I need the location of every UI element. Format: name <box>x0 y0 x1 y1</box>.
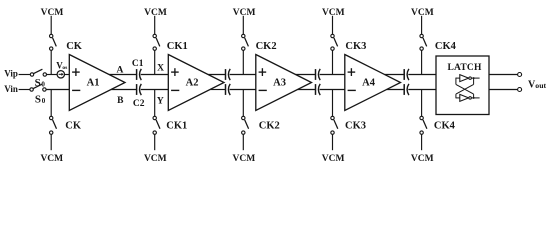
svg-text:VCM: VCM <box>40 154 63 164</box>
svg-text:A3: A3 <box>273 78 286 89</box>
value label Vos <box>56 60 67 71</box>
svg-text:CK1: CK1 <box>166 120 187 131</box>
junction dot latch top <box>473 77 475 79</box>
wire signal to switch bottom col5 <box>421 90 423 117</box>
latch box U1 <box>436 56 489 115</box>
svg-text:CK4: CK4 <box>435 41 457 52</box>
switch S0 (bottom input) <box>30 84 46 91</box>
wire switch S0 top to Vos <box>47 74 58 76</box>
wire switch S0 bottom to A1 inverting input <box>46 89 69 91</box>
op-amp A3 <box>256 55 312 111</box>
wire A3 top output to cap <box>296 74 316 76</box>
output label Vout <box>528 80 547 91</box>
switch CK bottom col1 <box>50 116 57 134</box>
svg-text:VCM: VCM <box>233 8 256 18</box>
inverter top (latch) <box>460 75 472 82</box>
wire VCM top col4 <box>332 16 334 35</box>
svg-text:CK3: CK3 <box>345 41 366 52</box>
svg-text:Vin: Vin <box>4 84 18 94</box>
pin label + (A3 non-inverting) <box>259 68 267 76</box>
wire cap to next stage top (stage 4) <box>408 74 436 76</box>
svg-text:LATCH: LATCH <box>447 63 481 73</box>
wire Vip to switch S0 top <box>19 74 31 76</box>
svg-text:CK1: CK1 <box>167 41 188 52</box>
wire latch cross feedback 2 <box>456 84 474 94</box>
terminal Vout+ <box>518 73 522 77</box>
wire latch right post top <box>473 78 475 85</box>
pin label + (A1 non-inverting) <box>72 68 80 76</box>
wire switch bottom col2 to VCM <box>154 134 156 150</box>
svg-text:Vip: Vip <box>4 68 18 78</box>
inverter bottom (latch) <box>460 94 472 101</box>
pin label + (A2 non-inverting) <box>171 68 179 76</box>
wire switch top col2 to signal <box>154 50 156 74</box>
svg-text:S: S <box>35 93 41 105</box>
wire cap to next stage bottom (stage 3) <box>320 89 345 91</box>
svg-text:CK: CK <box>65 120 82 131</box>
wire latch left post <box>455 78 457 85</box>
wire cap to next stage top (stage 1) <box>141 74 169 76</box>
wire switch bottom col5 to VCM <box>421 134 423 150</box>
wire Vos to A1 non-inverting input <box>64 74 69 76</box>
switch S0 (top input) <box>30 69 46 76</box>
svg-text:VCM: VCM <box>322 8 345 18</box>
op-amp A2 <box>168 55 224 111</box>
pin label − (A4 inverting) <box>348 89 356 91</box>
svg-text:A: A <box>116 66 123 76</box>
svg-text:VCM: VCM <box>144 8 167 18</box>
svg-text:VCM: VCM <box>233 154 256 164</box>
capacitor coupling stage2 top <box>226 69 231 80</box>
wire signal to switch bottom col3 <box>242 90 244 117</box>
switch CK3 bottom col4 <box>331 116 338 134</box>
wire cap to next stage bottom (stage 2) <box>230 89 256 91</box>
svg-text:CK2: CK2 <box>259 120 280 131</box>
terminal Vout- <box>518 88 522 92</box>
svg-text:C1: C1 <box>132 59 144 69</box>
wire switch top col3 to signal <box>242 50 244 74</box>
junction dot latch bottom <box>473 97 475 99</box>
svg-text:CK3: CK3 <box>345 120 366 131</box>
wire latch top output <box>471 77 479 79</box>
svg-text:Y: Y <box>157 96 164 106</box>
wire switch top col1 to signal <box>50 50 52 74</box>
svg-text:CK: CK <box>66 41 83 52</box>
switch CK2 bottom col3 <box>242 116 249 134</box>
capacitor coupling stage4 bottom <box>404 84 409 95</box>
op-amp A4 <box>345 55 401 111</box>
wire A4 bottom output to cap <box>387 89 404 91</box>
wire signal to switch bottom col4 <box>332 90 334 117</box>
wire A1 bottom output to cap <box>111 89 136 91</box>
wire latch right post bottom <box>473 94 475 98</box>
voltage source Vos <box>57 71 64 78</box>
wire latch to output terminal top <box>489 74 518 76</box>
svg-text:0: 0 <box>42 97 46 105</box>
wire A4 top output to cap <box>385 74 404 76</box>
switch CK3 top col4 <box>331 34 338 50</box>
wire switch top col5 to signal <box>421 50 423 74</box>
wire signal to switch bottom col2 <box>154 90 156 117</box>
wire cap to next stage bottom (stage 4) <box>408 89 436 91</box>
wire latch bottom output <box>471 97 479 99</box>
svg-text:A1: A1 <box>87 78 100 89</box>
svg-text:os: os <box>62 65 67 71</box>
capacitor coupling stage3 top <box>316 69 321 80</box>
capacitor coupling stage2 bottom <box>226 84 231 95</box>
svg-text:VCM: VCM <box>322 154 345 164</box>
svg-text:A2: A2 <box>186 78 199 89</box>
switch CK2 top col3 <box>242 34 249 50</box>
wire cap to next stage top (stage 3) <box>320 74 345 76</box>
svg-text:VCM: VCM <box>411 8 434 18</box>
svg-text:C2: C2 <box>133 99 145 109</box>
switch CK4 bottom col5 <box>420 116 427 134</box>
wire switch top col4 to signal <box>332 50 334 74</box>
wire latch to output terminal bottom <box>489 89 518 91</box>
wire A1 top output to cap <box>109 74 136 76</box>
wire switch bottom col1 to VCM <box>50 134 52 150</box>
wire cap to next stage top (stage 2) <box>230 74 256 76</box>
svg-text:CK4: CK4 <box>434 120 456 131</box>
wire A3 bottom output to cap <box>298 89 316 91</box>
wire VCM top col5 <box>421 16 423 35</box>
switch CK1 bottom col2 <box>153 116 160 134</box>
wire latch top input stub <box>456 77 460 79</box>
label S0 (bottom switch) <box>35 93 46 105</box>
svg-text:X: X <box>157 64 164 74</box>
pin label + (A4 non-inverting) <box>348 68 356 76</box>
wire signal to switch bottom col1 <box>50 90 52 117</box>
wire VCM top col3 <box>242 16 244 35</box>
svg-text:VCM: VCM <box>411 154 434 164</box>
switch CK1 top col2 <box>153 34 160 50</box>
wire Vin to switch S0 bottom <box>19 89 30 91</box>
pin label − (A3 inverting) <box>259 89 267 91</box>
capacitor C2 <box>137 84 142 95</box>
wire VCM top col1 <box>50 16 52 35</box>
wire A2 top output to cap <box>208 74 225 76</box>
label S0 (top switch) <box>35 77 46 89</box>
switch CK top col1 <box>50 34 57 50</box>
wire switch bottom col4 to VCM <box>332 134 334 150</box>
svg-text:out: out <box>535 81 546 90</box>
capacitor C1 <box>137 69 142 80</box>
wire latch cross feedback 1 <box>456 84 474 94</box>
svg-text:VCM: VCM <box>41 8 64 18</box>
svg-text:VCM: VCM <box>144 154 167 164</box>
svg-text:CK2: CK2 <box>256 41 277 52</box>
wire latch bottom input stub <box>456 97 460 99</box>
wire latch left post bottom <box>455 94 457 98</box>
switch CK4 top col5 <box>420 34 427 50</box>
capacitor coupling stage3 bottom <box>316 84 321 95</box>
svg-text:A4: A4 <box>362 78 376 89</box>
pin label − (A2 inverting) <box>171 89 179 91</box>
svg-text:B: B <box>117 96 124 106</box>
op-amp A1 <box>69 55 125 111</box>
capacitor coupling stage4 top <box>404 69 409 80</box>
pin label − (A1 inverting) <box>72 89 80 91</box>
wire A2 bottom output to cap <box>210 89 225 91</box>
wire cap to next stage bottom (stage 1) <box>141 89 169 91</box>
wire switch bottom col3 to VCM <box>242 134 244 150</box>
wire VCM top col2 <box>154 16 156 35</box>
